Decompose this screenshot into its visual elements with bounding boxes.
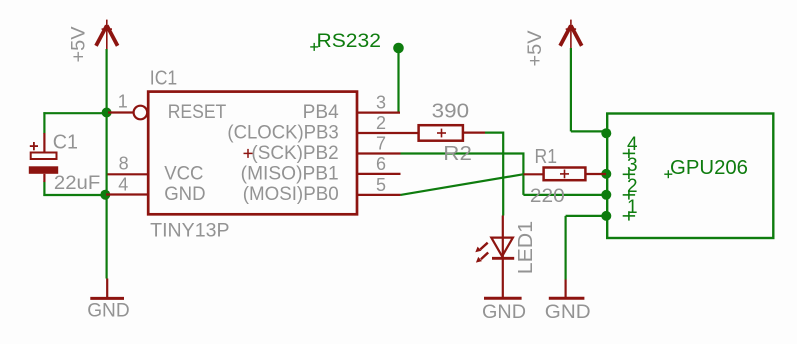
svg-text:+5V: +5V [67,27,89,63]
svg-text:GND: GND [482,301,526,323]
svg-text:GND: GND [545,301,591,323]
svg-text:3: 3 [376,93,386,113]
svg-text:22uF: 22uF [54,173,100,194]
svg-text:8: 8 [119,154,129,174]
svg-text:GND: GND [87,300,130,322]
svg-text:(SCK)PB2: (SCK)PB2 [251,143,338,164]
svg-text:GPU206: GPU206 [670,157,748,179]
svg-text:2: 2 [376,113,386,133]
svg-text:6: 6 [376,154,386,174]
svg-text:VCC: VCC [164,164,203,185]
svg-text:R1: R1 [535,146,558,168]
svg-text:GND: GND [164,184,205,205]
svg-text:4: 4 [118,175,128,195]
svg-text:PB4: PB4 [303,102,339,123]
svg-text:7: 7 [376,134,386,154]
svg-text:LED1: LED1 [515,221,537,274]
svg-text:(CLOCK)PB3: (CLOCK)PB3 [227,123,338,144]
svg-text:C1: C1 [53,132,78,154]
svg-text:TINY13P: TINY13P [150,219,229,241]
svg-text:RS232: RS232 [317,30,382,52]
svg-text:(MOSI)PB0: (MOSI)PB0 [243,184,339,205]
svg-text:390: 390 [432,100,469,122]
svg-text:+5V: +5V [524,31,546,67]
svg-text:220: 220 [530,185,565,207]
svg-text:1: 1 [118,91,128,111]
svg-text:R2: R2 [443,143,472,165]
svg-text:RESET: RESET [168,102,227,123]
svg-text:(MISO)PB1: (MISO)PB1 [241,164,339,185]
svg-text:5: 5 [376,175,386,195]
svg-text:IC1: IC1 [150,67,177,89]
